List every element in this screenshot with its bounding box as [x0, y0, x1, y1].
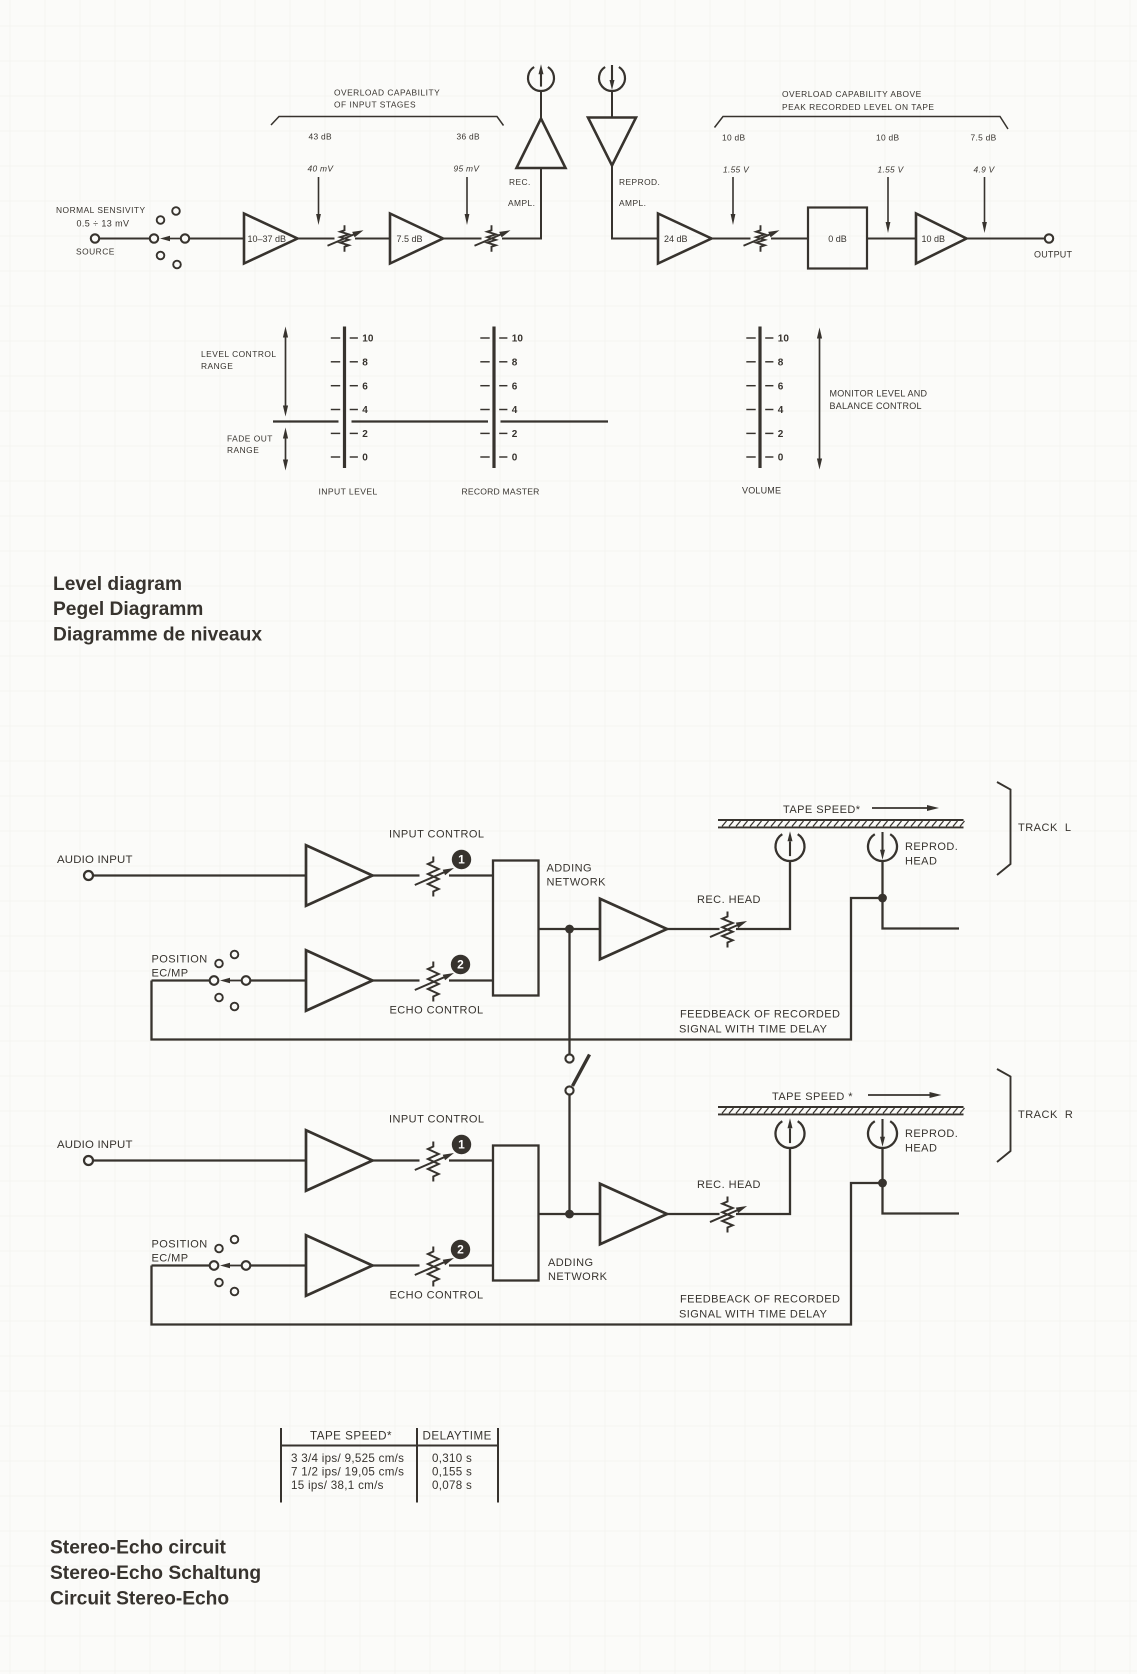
wire A1 to R1	[298, 238, 335, 240]
caption: Level diagram / Pegel Diagramm / Diagramme de niveaux	[53, 574, 262, 646]
svg-text:REC. HEAD: REC. HEAD	[697, 1179, 761, 1191]
wire A6 to output terminal	[967, 238, 1045, 240]
label TAPE SPEED * with speed arrow	[772, 1091, 942, 1103]
svg-text:EC/MP: EC/MP	[152, 1253, 189, 1265]
svg-text:INPUT LEVEL: INPUT LEVEL	[319, 487, 378, 497]
svg-text:NETWORK: NETWORK	[547, 877, 607, 889]
svg-text:RANGE: RANGE	[227, 445, 259, 455]
svg-text:2: 2	[512, 429, 518, 440]
svg-text:0 dB: 0 dB	[828, 234, 847, 244]
svg-text:POSITION: POSITION	[152, 1239, 208, 1251]
label REPROD. HEAD	[905, 1128, 958, 1155]
svg-text:6: 6	[778, 381, 784, 392]
svg-text:8: 8	[362, 357, 368, 368]
wire adding network output	[539, 1213, 566, 1215]
wire input terminal to line amp	[93, 874, 306, 876]
slider scale VOLUME	[742, 327, 789, 496]
variable attenuator R3 (VOLUME pot)	[744, 225, 780, 251]
svg-text:FEEDBEACK OF RECORDED: FEEDBEACK OF RECORDED	[680, 1294, 840, 1306]
svg-text:24 dB: 24 dB	[664, 234, 688, 244]
wire echo pot to adding network	[449, 979, 493, 981]
svg-text:ADDING: ADDING	[548, 1257, 593, 1269]
svg-text:POSITION: POSITION	[152, 954, 208, 966]
label POSITION EC/MP	[152, 1239, 208, 1265]
label 7.5 dB with 4.9 V arrow (output)	[971, 133, 997, 234]
record head symbol	[775, 831, 804, 861]
block U1 0 dB (line amplifier)	[808, 208, 867, 269]
wire echo amp to echo control pot	[373, 979, 420, 981]
svg-text:ECHO CONTROL: ECHO CONTROL	[390, 1290, 484, 1302]
slider scale INPUT LEVEL	[319, 327, 378, 497]
record head symbol (level diagram)	[528, 64, 554, 91]
wire junction to record amp	[574, 928, 601, 930]
label ECHO CONTROL	[390, 1005, 484, 1017]
svg-text:7.5 dB: 7.5 dB	[397, 234, 423, 244]
amplifier echo amp	[306, 1235, 373, 1296]
svg-text:Circuit Stereo-Echo: Circuit Stereo-Echo	[50, 1589, 229, 1610]
label FEEDBEACK OF RECORDED SIGNAL WITH TIME DELAY	[679, 1009, 840, 1036]
annotation bracket: overload capability above peak recorded level on tape	[715, 89, 1009, 129]
svg-text:0.5 ÷ 13 mV: 0.5 ÷ 13 mV	[77, 219, 130, 229]
svg-text:HEAD: HEAD	[905, 1143, 937, 1155]
variable attenuator R1 (INPUT LEVEL pot)	[328, 225, 364, 251]
svg-text:0: 0	[362, 453, 368, 464]
selector switch POSITION EC/MP	[210, 1236, 251, 1296]
label INPUT CONTROL	[389, 1114, 485, 1126]
svg-text:MONITOR LEVEL AND: MONITOR LEVEL AND	[830, 389, 928, 399]
svg-text:TRACK L: TRACK L	[1018, 822, 1072, 834]
variable attenuator ECHO CONTROL pot	[415, 1247, 454, 1287]
svg-text:TAPE SPEED *: TAPE SPEED *	[772, 1091, 853, 1103]
tape with motion hatching	[718, 820, 965, 827]
variable attenuator INPUT CONTROL pot	[415, 857, 454, 897]
selector switch POSITION EC/MP	[210, 951, 251, 1011]
variable attenuator R2 (RECORD MASTER pot)	[475, 225, 511, 251]
svg-text:2: 2	[778, 429, 784, 440]
svg-text:SIGNAL WITH TIME DELAY: SIGNAL WITH TIME DELAY	[679, 1309, 828, 1321]
svg-text:FEEDBEACK OF RECORDED: FEEDBEACK OF RECORDED	[680, 1009, 840, 1021]
wire feedback into position switch	[152, 979, 210, 981]
svg-text:4: 4	[778, 405, 784, 416]
node junction at adding network output	[565, 1210, 574, 1219]
label TAPE SPEED* with speed arrow	[783, 804, 939, 816]
svg-text:0,310 s: 0,310 s	[432, 1452, 472, 1465]
wire record amp to rec head pot	[667, 1213, 720, 1215]
svg-text:4.9 V: 4.9 V	[974, 165, 996, 175]
fade-out threshold line	[273, 420, 608, 422]
svg-text:7 1/2 ips/ 19,05 cm/s: 7 1/2 ips/ 19,05 cm/s	[291, 1466, 404, 1479]
wire feedback loop (recorded signal with time delay)	[152, 898, 879, 1040]
svg-text:EC/MP: EC/MP	[152, 968, 189, 980]
svg-text:ECHO CONTROL: ECHO CONTROL	[390, 1005, 484, 1017]
label 43 dB with 40 mV arrow	[308, 132, 335, 226]
svg-text:6: 6	[362, 381, 368, 392]
label ADDING NETWORK (top right of box)	[547, 863, 607, 889]
amplifier A3 REC. AMPL (points up)	[517, 92, 566, 169]
slider scale RECORD MASTER	[462, 327, 540, 497]
wire reproduce output to the right	[883, 898, 960, 929]
node SOURCE input terminal	[91, 234, 99, 242]
label AUDIO INPUT	[57, 854, 133, 866]
svg-text:NETWORK: NETWORK	[548, 1271, 608, 1283]
svg-text:NORMAL SENSIVITY: NORMAL SENSIVITY	[56, 205, 146, 215]
svg-text:TAPE SPEED*: TAPE SPEED*	[783, 804, 861, 816]
wire reproduce head down to junction	[881, 861, 883, 894]
svg-text:2: 2	[362, 429, 368, 440]
svg-text:SIGNAL WITH TIME DELAY: SIGNAL WITH TIME DELAY	[679, 1024, 828, 1036]
label 10 dB with 1.55 V arrow (after 0 dB block)	[876, 133, 905, 234]
svg-text:95 mV: 95 mV	[454, 164, 481, 174]
block ADDING NETWORK	[493, 1146, 539, 1281]
wire reproduce head down to junction	[881, 1148, 883, 1179]
amplifier line amp (input)	[306, 1130, 373, 1191]
svg-text:REPROD.: REPROD.	[619, 177, 660, 187]
wire channel switch down to track R junction	[568, 1095, 570, 1210]
svg-text:0,078 s: 0,078 s	[432, 1479, 472, 1492]
svg-text:AUDIO INPUT: AUDIO INPUT	[57, 1139, 133, 1151]
label 36 dB with 95 mV arrow	[454, 132, 481, 226]
svg-text:AMPL.: AMPL.	[508, 198, 535, 208]
svg-text:4: 4	[512, 405, 518, 416]
node junction at adding network output	[565, 925, 574, 934]
svg-text:2: 2	[457, 958, 464, 972]
record head symbol	[776, 1118, 805, 1148]
wire echo pot to adding network	[449, 1264, 493, 1266]
svg-text:PEAK RECORDED LEVEL ON TAPE: PEAK RECORDED LEVEL ON TAPE	[782, 102, 935, 112]
label 10 dB with 1.55 V arrow (after 24 dB amp)	[722, 133, 750, 226]
wire pot to record head	[736, 861, 790, 929]
node junction at reproduce head output	[878, 1179, 887, 1188]
wire R1 to A2	[355, 238, 390, 240]
svg-text:TRACK R: TRACK R	[1018, 1109, 1073, 1121]
wire input pot to adding network	[449, 1159, 493, 1161]
label ADDING NETWORK (bottom right of box)	[548, 1257, 608, 1283]
switch channel-link (open) between tracks	[565, 1054, 589, 1094]
variable attenuator rec head level pot	[710, 912, 747, 948]
knob badge 2	[451, 1240, 470, 1259]
svg-text:INPUT CONTROL: INPUT CONTROL	[389, 829, 485, 841]
wire echo amp to echo control pot	[373, 1264, 420, 1266]
svg-text:8: 8	[778, 357, 784, 368]
svg-text:HEAD: HEAD	[905, 856, 937, 868]
svg-text:VOLUME: VOLUME	[742, 486, 781, 496]
svg-text:REPROD.: REPROD.	[905, 1128, 958, 1140]
label POSITION EC/MP	[152, 954, 208, 980]
wire reproduce output to the right	[883, 1183, 960, 1214]
svg-text:REPROD.: REPROD.	[905, 841, 958, 853]
knob badge 2	[451, 955, 470, 974]
variable attenuator ECHO CONTROL pot	[415, 962, 454, 1002]
svg-text:6: 6	[512, 381, 518, 392]
knob badge 1	[452, 850, 471, 869]
svg-text:AMPL.: AMPL.	[619, 198, 646, 208]
variable attenuator INPUT CONTROL pot	[415, 1142, 454, 1182]
svg-text:BALANCE CONTROL: BALANCE CONTROL	[830, 401, 922, 411]
svg-text:1.55 V: 1.55 V	[878, 165, 905, 175]
svg-text:OVERLOAD CAPABILITY: OVERLOAD CAPABILITY	[334, 88, 440, 98]
wire reproduce head to A4	[611, 91, 613, 117]
range arrow LEVEL CONTROL RANGE	[201, 327, 288, 417]
svg-text:0,155 s: 0,155 s	[432, 1466, 472, 1479]
svg-text:10 dB: 10 dB	[876, 133, 900, 143]
amplifier line amp (input)	[306, 845, 373, 906]
svg-text:OF INPUT STAGES: OF INPUT STAGES	[334, 100, 416, 110]
label REC. AMPL.	[508, 177, 535, 208]
wire A2 to R2	[443, 238, 482, 240]
knob badge 1	[452, 1135, 471, 1154]
range arrow MONITOR LEVEL AND BALANCE CONTROL	[817, 328, 928, 470]
svg-text:7.5 dB: 7.5 dB	[971, 133, 997, 143]
bracket TRACK R	[997, 1069, 1073, 1162]
svg-text:LEVEL CONTROL: LEVEL CONTROL	[201, 349, 277, 359]
caption: Stereo-Echo circuit / Schaltung / Circuit	[50, 1538, 261, 1610]
svg-text:10–37 dB: 10–37 dB	[248, 234, 287, 244]
wire feedback into position switch	[152, 1264, 210, 1266]
wire A4 down to A5	[612, 166, 658, 239]
wire junction to record amp	[574, 1213, 601, 1215]
svg-text:1: 1	[458, 1138, 465, 1152]
svg-text:4: 4	[362, 405, 368, 416]
label FEEDBEACK OF RECORDED SIGNAL WITH TIME DELAY	[679, 1294, 840, 1321]
svg-text:Diagramme de niveaux: Diagramme de niveaux	[53, 625, 262, 646]
svg-text:DELAYTIME: DELAYTIME	[423, 1430, 492, 1443]
svg-text:10 dB: 10 dB	[722, 133, 746, 143]
label REC. HEAD	[697, 894, 761, 906]
svg-text:Stereo-Echo circuit: Stereo-Echo circuit	[50, 1538, 227, 1559]
block ADDING NETWORK	[493, 861, 539, 996]
reproduce head symbol (level diagram)	[599, 65, 625, 91]
node audio input terminal	[84, 1156, 93, 1165]
wire line amp to input control pot	[373, 874, 420, 876]
amplifier A2 7.5 dB	[390, 214, 443, 264]
reproduce head symbol	[868, 1119, 897, 1148]
svg-text:TAPE SPEED*: TAPE SPEED*	[310, 1430, 392, 1443]
label NORMAL SENSIVITY / 0.5÷13 mV / SOURCE	[56, 205, 146, 257]
wire switch to echo amp	[251, 979, 307, 981]
node audio input terminal	[84, 871, 93, 880]
svg-text:AUDIO INPUT: AUDIO INPUT	[57, 854, 133, 866]
amplifier A4 REPROD. AMPL (points down)	[588, 118, 636, 166]
svg-text:OUTPUT: OUTPUT	[1034, 250, 1073, 260]
svg-text:Pegel Diagramm: Pegel Diagramm	[53, 599, 203, 620]
wire line amp to input control pot	[373, 1159, 420, 1161]
amplifier record amp	[600, 899, 667, 960]
svg-text:43 dB: 43 dB	[309, 132, 333, 142]
wire pot to record head	[736, 1148, 790, 1214]
reproduce head symbol	[868, 832, 897, 861]
svg-text:10 dB: 10 dB	[922, 234, 946, 244]
svg-text:40 mV: 40 mV	[308, 164, 335, 174]
svg-text:10: 10	[512, 334, 524, 345]
svg-text:36 dB: 36 dB	[457, 132, 481, 142]
wire A5 to R3	[712, 238, 751, 240]
svg-text:Stereo-Echo Schaltung: Stereo-Echo Schaltung	[50, 1563, 261, 1584]
svg-text:0: 0	[778, 453, 784, 464]
wire selector to A1	[189, 238, 244, 240]
input selector switch S1 (source select)	[150, 207, 189, 268]
wire source to selector	[100, 238, 150, 240]
svg-text:1.55 V: 1.55 V	[723, 165, 750, 175]
label REC. HEAD	[697, 1179, 761, 1191]
wire R3 to 0 dB block	[771, 238, 808, 240]
svg-text:2: 2	[457, 1243, 464, 1257]
amplifier A5 24 dB	[658, 214, 712, 264]
wire record amp to rec head pot	[667, 928, 720, 930]
svg-text:1: 1	[458, 853, 465, 867]
svg-text:RANGE: RANGE	[201, 361, 233, 371]
svg-text:REC.: REC.	[509, 177, 531, 187]
wire 0 dB block to A6	[867, 238, 916, 240]
tape with motion hatching	[718, 1107, 965, 1114]
range arrow FADE OUT RANGE	[227, 428, 288, 471]
wire R2 up to record amplifier	[502, 168, 541, 239]
label AUDIO INPUT	[57, 1139, 133, 1151]
svg-text:FADE OUT: FADE OUT	[227, 434, 273, 444]
label REPROD. HEAD	[905, 841, 958, 868]
bracket TRACK L	[997, 782, 1072, 875]
svg-text:ADDING: ADDING	[547, 863, 592, 875]
annotation bracket: overload capability of input stages	[271, 88, 504, 126]
svg-text:10: 10	[778, 334, 790, 345]
svg-text:10: 10	[362, 334, 374, 345]
svg-text:OVERLOAD CAPABILITY ABOVE: OVERLOAD CAPABILITY ABOVE	[782, 89, 922, 99]
variable attenuator rec head level pot	[710, 1197, 747, 1233]
node junction at reproduce head output	[878, 894, 887, 903]
label ECHO CONTROL	[390, 1290, 484, 1302]
svg-text:Level diagram: Level diagram	[53, 574, 182, 595]
svg-text:INPUT CONTROL: INPUT CONTROL	[389, 1114, 485, 1126]
table tape speed / delay time	[280, 1428, 499, 1503]
wire feedback loop (recorded signal with time delay)	[152, 1183, 879, 1325]
svg-text:3 3/4 ips/ 9,525 cm/s: 3 3/4 ips/ 9,525 cm/s	[291, 1452, 404, 1465]
svg-text:RECORD MASTER: RECORD MASTER	[462, 487, 540, 497]
svg-text:SOURCE: SOURCE	[76, 247, 115, 257]
svg-text:15 ips/ 38,1 cm/s: 15 ips/ 38,1 cm/s	[291, 1479, 384, 1492]
wire input terminal to line amp	[93, 1159, 306, 1161]
amplifier echo amp	[306, 950, 373, 1011]
wire track L junction down to channel switch	[568, 933, 570, 1054]
wire adding network output	[539, 928, 566, 930]
node OUTPUT terminal	[1034, 234, 1073, 259]
label REPROD. AMPL.	[619, 177, 660, 208]
wire switch to echo amp	[251, 1264, 307, 1266]
svg-text:8: 8	[512, 357, 518, 368]
label INPUT CONTROL	[389, 829, 485, 841]
amplifier A1 10-37 dB (input amplifier)	[244, 214, 298, 264]
wire input pot to adding network	[449, 874, 493, 876]
svg-text:0: 0	[512, 453, 518, 464]
svg-text:REC. HEAD: REC. HEAD	[697, 894, 761, 906]
amplifier A6 10 dB (output amplifier)	[916, 214, 967, 264]
amplifier record amp	[600, 1184, 667, 1245]
